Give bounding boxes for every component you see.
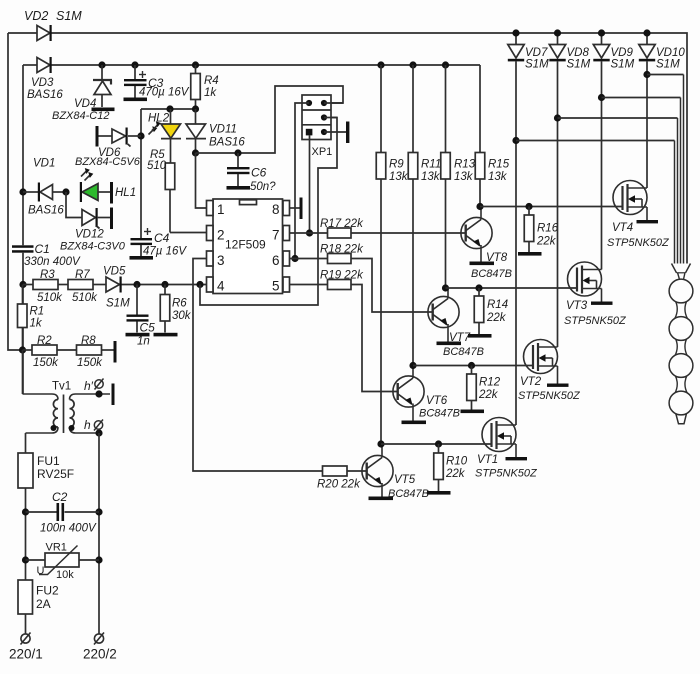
diode VD7 S1M with VT1 drain rail and lamp wire (508, 29, 675, 425)
capacitor C2 100n 400V (26, 490, 100, 535)
svg-text:BAS16: BAS16 (28, 205, 64, 217)
resistor R8 150k (77, 335, 104, 369)
wire IC pin 8 to chassis (290, 207, 300, 209)
ground bar below R12 (461, 410, 485, 414)
resistor R7 510k (68, 269, 98, 304)
diode VD9 S1M with VT3 drain rail and lamp wire (593, 29, 680, 269)
svg-text:470µ 16V: 470µ 16V (139, 87, 190, 99)
svg-text:R12: R12 (479, 377, 501, 389)
svg-text:RV25F: RV25F (37, 467, 74, 481)
node R16 top (525, 203, 532, 210)
ground bar below C4 (130, 256, 154, 260)
svg-text:BC847B: BC847B (443, 346, 484, 358)
MOSFET VT4 STP5NK50Z (607, 181, 670, 250)
terminal h' lamp filament (84, 379, 104, 394)
wire IC pin 7 to R17 (290, 232, 328, 234)
wire XP1 pin5 to IC pin7 line (309, 135, 311, 233)
svg-text:C5: C5 (140, 321, 156, 335)
zener diode VD4 BZX84-C12 (52, 65, 112, 122)
resistor R14 22k (474, 288, 508, 334)
wire VT7 collector to VT3 gate (446, 287, 578, 289)
wire XP1 pin3 stub (324, 117, 337, 119)
node IC pin4 junction (196, 281, 203, 288)
XP1 pin 2 dot (321, 100, 327, 106)
node HL1 anode junction (62, 188, 69, 195)
svg-text:330n 400V: 330n 400V (24, 256, 81, 268)
svg-text:5: 5 (272, 279, 280, 294)
terminal 220/1 (9, 633, 43, 662)
svg-text:VD1: VD1 (33, 158, 55, 170)
svg-text:S1M: S1M (656, 59, 680, 71)
svg-text:STP5NK50Z: STP5NK50Z (607, 237, 670, 249)
wire +V rail (after VD3) (23, 64, 480, 66)
svg-text:6: 6 (272, 253, 280, 268)
ground bar below R10 (427, 491, 451, 495)
node VT5 collector junction (377, 440, 384, 447)
svg-text:R20 22k: R20 22k (317, 479, 361, 491)
resistor R18 22k (320, 244, 364, 264)
diode VD1 BAS16 (points left) (23, 158, 66, 217)
diode VD5 S1M (103, 266, 130, 310)
svg-text:BZX84-C5V6: BZX84-C5V6 (75, 156, 141, 168)
node VD1 cathode junction (19, 188, 26, 195)
svg-text:C2: C2 (52, 490, 68, 504)
svg-text:VD10: VD10 (656, 47, 685, 59)
svg-text:VD5: VD5 (103, 266, 126, 278)
svg-text:VD9: VD9 (611, 47, 634, 59)
node VDD junction (VD11 bottom) (192, 149, 199, 156)
wire IC pin 3 route to R20 (193, 259, 323, 472)
svg-text:R16: R16 (537, 223, 559, 235)
node VR1 right (95, 556, 102, 563)
XP1 pin 1 dot (306, 100, 312, 106)
svg-text:R15: R15 (488, 159, 510, 171)
svg-text:C6: C6 (251, 166, 267, 180)
wire IC pin 6 to R18 (290, 258, 328, 260)
svg-text:FU1: FU1 (37, 454, 60, 468)
resistor R6 30k (160, 285, 192, 333)
svg-text:BZX84-C12: BZX84-C12 (52, 110, 109, 122)
ground bar below R16 (518, 252, 542, 256)
ground bar below C3 (124, 98, 148, 102)
XP1 pin 4 dot (321, 129, 327, 135)
node R6 top (161, 281, 168, 288)
wire left border rail (8, 33, 23, 350)
resistor R11 13k (408, 65, 441, 366)
svg-text:HL1: HL1 (115, 187, 136, 199)
svg-text:1k: 1k (204, 87, 217, 99)
node R11 top (409, 61, 416, 68)
node R3 left junction (19, 281, 26, 288)
transistor VT8 BC847B (461, 207, 512, 280)
resistor R15 13k (475, 65, 509, 207)
wire VT5 collector to VT1 gate (381, 443, 491, 445)
svg-text:R14: R14 (487, 299, 508, 311)
svg-text:13k: 13k (454, 171, 474, 183)
node R13 top (442, 61, 449, 68)
ground bar below R14 (468, 334, 492, 338)
svg-text:510: 510 (147, 160, 167, 172)
IC pin 4 stub (207, 277, 226, 294)
svg-text:C1: C1 (35, 242, 50, 256)
transistor VT6 BC847B (393, 366, 460, 425)
svg-text:1k: 1k (30, 318, 43, 330)
terminal h lamp filament (84, 418, 103, 432)
chassis bar at HL1 (110, 182, 113, 204)
node pin7/XP1 junction (306, 229, 313, 236)
svg-text:VR1: VR1 (46, 542, 67, 554)
connector XP1 body (302, 95, 332, 158)
svg-text:HL2: HL2 (148, 113, 170, 125)
resistor R5 510 (147, 149, 207, 233)
lamp string load EL (ball garland) (669, 264, 693, 424)
svg-text:4: 4 (217, 279, 225, 294)
terminal 220/2 (83, 633, 117, 662)
capacitor C4 47u 16V electrolytic (131, 228, 188, 258)
wire main top rail from mains to lamp bundle (8, 33, 687, 264)
wire R18 to VT7 base (351, 259, 433, 313)
svg-text:22k: 22k (478, 389, 499, 401)
ground bar below VD4 (92, 108, 115, 112)
svg-text:VD11: VD11 (209, 124, 237, 136)
capacitor C5 1n (127, 285, 156, 348)
wire HL2/VD11 anode rail (141, 108, 196, 110)
MOSFET VT3 STP5NK50Z (564, 262, 627, 327)
node VT7 collector junction (442, 284, 449, 291)
svg-text:510k: 510k (72, 292, 98, 304)
svg-text:STP5NK50Z: STP5NK50Z (564, 315, 627, 327)
svg-text:BC847B: BC847B (419, 408, 460, 420)
IC pin 6 stub (272, 251, 290, 268)
svg-text:13k: 13k (488, 171, 508, 183)
svg-text:VT3: VT3 (566, 300, 588, 312)
svg-text:VT8: VT8 (486, 252, 508, 264)
varistor VR1 10k (26, 542, 100, 582)
chassis bar at IC pin 8 (300, 198, 303, 220)
diode VD3 BAS16 (27, 57, 63, 101)
svg-text:BZX84-C3V0: BZX84-C3V0 (60, 241, 126, 253)
node C6 top (234, 149, 241, 156)
svg-text:BC847B: BC847B (471, 268, 512, 280)
svg-text:Tv1: Tv1 (52, 381, 71, 393)
svg-text:VT7: VT7 (449, 332, 471, 344)
MOSFET VT2 STP5NK50Z (518, 340, 581, 403)
svg-text:S1M: S1M (525, 59, 549, 71)
svg-text:R3: R3 (40, 269, 55, 281)
wire R17 to VT8 base (351, 232, 466, 234)
diode VD8 S1M with VT2 drain rail and lamp wire (549, 29, 677, 347)
transformer Tv1 (23, 381, 111, 434)
diode VD12 BZX84-C3V0 (60, 192, 126, 253)
node R9 top (377, 61, 384, 68)
svg-text:R2: R2 (37, 335, 52, 347)
svg-text:22k: 22k (445, 468, 466, 480)
svg-text:220/1: 220/1 (9, 647, 43, 662)
svg-text:150k: 150k (77, 357, 103, 369)
node pin6/XP1 junction (291, 255, 298, 262)
XP1 pin 3 dot (321, 114, 327, 120)
node VR1 left (22, 556, 29, 563)
svg-text:R17 22k: R17 22k (320, 218, 364, 230)
LED HL1 green with arrows (80, 168, 136, 202)
svg-text:50n?: 50n? (250, 181, 276, 193)
diode VD10 S1M with VT4 drain rail and lamp wire (639, 29, 686, 263)
resistor R10 22k (434, 444, 468, 491)
node h' junction (95, 390, 102, 397)
svg-text:10k: 10k (56, 569, 74, 581)
MOSFET VT1 STP5NK50Z (475, 418, 538, 480)
wire FU1 to terminal (25, 488, 27, 634)
svg-text:1n: 1n (137, 336, 150, 348)
wire VDD node down to IC pin 1 (196, 153, 207, 208)
node C2 right (95, 508, 102, 515)
ground bar below C5 (126, 333, 150, 337)
zener diode VD6 BZX84-C5V6 with chassis plate (75, 126, 141, 168)
svg-text:R8: R8 (81, 335, 96, 347)
node HL2 top (166, 105, 173, 112)
node VD6 cathode junction (137, 132, 144, 139)
wire XP1 pin4 to chassis (324, 131, 346, 133)
resistor R1 1k (18, 285, 45, 351)
node VD4 top (98, 61, 105, 68)
svg-text:22k: 22k (486, 312, 507, 324)
svg-text:BC847B: BC847B (388, 488, 429, 500)
svg-text:R6: R6 (172, 298, 187, 310)
chassis bar at VD12 (110, 208, 113, 230)
svg-text:S1M: S1M (567, 59, 591, 71)
svg-text:STP5NK50Z: STP5NK50Z (518, 390, 581, 402)
transistor VT5 BC847B (362, 444, 429, 500)
wire XP1 pin1 to IC pin6 line (295, 103, 309, 259)
svg-text:8: 8 (272, 202, 280, 217)
wire R3-R7-VD5 row (23, 284, 207, 286)
svg-text:2: 2 (217, 228, 225, 243)
svg-text:R7: R7 (75, 269, 90, 281)
svg-text:FU2: FU2 (36, 584, 59, 598)
svg-text:h: h (84, 418, 91, 432)
node R2 left junction (19, 346, 26, 353)
capacitor C1 330n 400V (12, 242, 81, 268)
svg-text:VD7: VD7 (525, 47, 548, 59)
svg-text:VD3: VD3 (31, 77, 54, 89)
resistor R2 150k (32, 335, 59, 369)
svg-text:VT2: VT2 (520, 376, 542, 388)
svg-text:VT6: VT6 (426, 395, 448, 407)
svg-text:U: U (37, 565, 45, 577)
wire VT8 collector to VT4 gate (480, 206, 623, 208)
svg-text:BAS16: BAS16 (209, 137, 245, 149)
svg-text:13k: 13k (389, 171, 409, 183)
svg-text:220/2: 220/2 (83, 647, 117, 662)
svg-text:R11: R11 (421, 159, 441, 171)
svg-text:2A: 2A (36, 597, 51, 611)
LED HL2 yellow with arrows (148, 109, 181, 163)
ground bar below C6 (227, 186, 251, 190)
svg-text:R10: R10 (446, 456, 468, 468)
svg-text:R9: R9 (389, 159, 404, 171)
svg-text:150k: 150k (33, 357, 59, 369)
capacitor C6 50n (227, 153, 276, 193)
resistor R17 22k (320, 218, 364, 238)
IC pin 1 stub (207, 201, 225, 218)
diode VD11 BAS16 (186, 109, 245, 153)
wire VT6 collector to VT2 gate (413, 365, 533, 367)
IC pin 3 stub (207, 251, 225, 268)
node R12 top (468, 362, 475, 369)
resistor R12 22k (467, 366, 501, 410)
resistor R19 22k (320, 270, 364, 290)
IC pin 7 stub (272, 226, 290, 243)
wire XP1 pin2 stub (324, 102, 343, 104)
svg-text:VT5: VT5 (394, 474, 416, 486)
node C2 left (22, 508, 29, 515)
node VD11 top / R4 bottom (192, 105, 199, 112)
svg-text:47µ 16V: 47µ 16V (143, 246, 187, 258)
resistor R4 1k (191, 65, 219, 109)
chassis bar at Tv1 h' (112, 384, 115, 406)
IC U1 12F509 body (213, 199, 283, 294)
svg-text:S1M: S1M (106, 298, 130, 310)
svg-text:h′: h′ (84, 379, 94, 393)
svg-text:R4: R4 (204, 75, 219, 87)
wire VDD node to XP1 pin (196, 86, 344, 153)
wire Tv1 secondary bottom down (98, 433, 100, 634)
resistor R13 13k (441, 65, 476, 288)
node C5 top (133, 281, 140, 288)
node R4 top (192, 61, 199, 68)
node R14 top (475, 284, 482, 291)
resistor R3 510k (33, 269, 63, 304)
fuse FU1 RV25F (18, 453, 74, 488)
IC pin 2 stub (207, 226, 225, 243)
svg-text:30k: 30k (172, 310, 192, 322)
node R10 top (435, 440, 442, 447)
fuse FU2 2A (18, 580, 59, 614)
IC pin 5 stub (272, 277, 290, 294)
node h junction (95, 429, 102, 436)
node VT6 collector junction (409, 362, 416, 369)
capacitor C3 470u 16V electrolytic (124, 65, 190, 99)
svg-text:VD2: VD2 (24, 9, 48, 23)
svg-text:100n 400V: 100n 400V (40, 523, 97, 535)
svg-text:13k: 13k (421, 171, 441, 183)
svg-text:S1M: S1M (611, 59, 635, 71)
resistor R9 13k (376, 65, 409, 444)
transistor VT7 BC847B (428, 288, 484, 358)
IC pin 8 stub (272, 201, 290, 218)
ground bar below R6 (154, 333, 178, 337)
svg-text:XP1: XP1 (312, 146, 333, 158)
svg-text:3: 3 (217, 253, 225, 268)
svg-text:VT1: VT1 (477, 454, 498, 466)
XP1 pin 5 square (306, 129, 313, 136)
wire IC pin 5 to R19 (290, 284, 328, 286)
wire pin4 node to XP1 pin2 route (200, 118, 337, 306)
wire divider rail to Tv1 primary (22, 350, 24, 394)
svg-text:VD12: VD12 (75, 229, 104, 241)
svg-text:STP5NK50Z: STP5NK50Z (475, 468, 538, 480)
svg-text:510k: 510k (37, 292, 63, 304)
svg-text:1: 1 (217, 202, 225, 217)
node VT8 collector junction (476, 203, 483, 210)
svg-text:VT4: VT4 (612, 222, 633, 234)
node C3 top (131, 61, 138, 68)
wire Tv1 primary bottom to FU1 (25, 433, 27, 453)
svg-text:R1: R1 (30, 306, 45, 318)
wire R19 to VT6 base (351, 285, 398, 392)
diode VD2 S1M mains series diode (24, 9, 82, 41)
wire rail x141 down to C4 (140, 109, 142, 239)
chassis bar at XP1 (346, 122, 349, 144)
wire left divider rail x23 (22, 65, 24, 394)
resistor R20 22k (317, 466, 368, 491)
svg-text:R13: R13 (454, 159, 476, 171)
wire R2-R8 row (23, 349, 114, 351)
svg-text:7: 7 (272, 228, 280, 243)
svg-text:S1M: S1M (56, 9, 82, 23)
svg-text:VD8: VD8 (567, 47, 590, 59)
svg-text:R18 22k: R18 22k (320, 244, 364, 256)
svg-text:22k: 22k (536, 236, 557, 248)
chassis bar at R8 (114, 341, 117, 363)
resistor R16 22k (524, 207, 558, 253)
svg-text:12F509: 12F509 (225, 238, 266, 252)
svg-text:R19 22k: R19 22k (320, 270, 364, 282)
svg-text:BAS16: BAS16 (27, 89, 63, 101)
svg-text:C4: C4 (154, 231, 170, 245)
